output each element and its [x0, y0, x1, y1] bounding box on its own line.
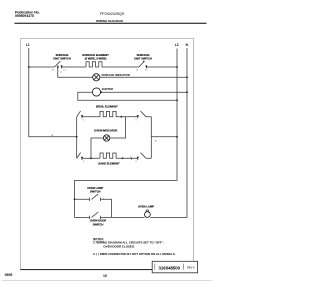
junction at L1 feed and oven left bus	[76, 136, 78, 138]
wire L2 vertical	[75, 49, 178, 181]
switch oven lamp switch	[90, 194, 101, 201]
svg-text:IGNITOR: IGNITOR	[102, 87, 113, 91]
wire broil row	[82, 116, 151, 118]
junction at switch tap and indicator drop	[57, 66, 59, 68]
svg-text:FFGW2425QS: FFGW2425QS	[100, 12, 125, 16]
switch broil right	[138, 111, 146, 118]
resistor broil element	[100, 111, 119, 116]
barcode bars	[155, 264, 184, 270]
junction at ignitor output	[100, 91, 102, 93]
notes block	[93, 237, 176, 256]
junction at L2 and ignitor return	[176, 99, 178, 101]
wire surface indicator row	[58, 67, 187, 77]
junction on bake row	[122, 157, 124, 159]
wire L1 vertical	[29, 48, 77, 137]
junction at surface switch right blade tip	[143, 61, 145, 63]
svg-text:OVEN INDICATOR: OVEN INDICATOR	[94, 128, 117, 132]
svg-text:WIRING DIAGRAM: WIRING DIAGRAM	[96, 19, 123, 23]
wire oven lamp block left bus	[74, 180, 76, 217]
svg-text:BAKE ELEMENT: BAKE ELEMENT	[98, 161, 120, 165]
switch oven door switch	[90, 212, 101, 219]
resistor surface element	[86, 62, 105, 67]
junction at bake row and indicator leg	[90, 157, 92, 159]
wire oven left bus	[76, 117, 78, 159]
svg-text:0905: 0905	[5, 273, 13, 277]
wire ignitor loop	[78, 92, 187, 100]
svg-text:SWITCH: SWITCH	[90, 190, 101, 194]
svg-text:UNIT SWITCH: UNIT SWITCH	[134, 56, 152, 60]
svg-text:(2 WIRE, 3 WIRE): (2 WIRE, 3 WIRE)	[85, 56, 107, 60]
wire oven door row	[75, 216, 145, 218]
svg-text:10: 10	[103, 274, 107, 278]
contact arrow surface switch right	[145, 66, 147, 68]
junction at L2 and surface row	[176, 66, 178, 68]
svg-text:2. ( ) WIRE CONNECTED BY DOT: 2. ( ) WIRE CONNECTED BY DOT OPTION ON A…	[93, 252, 176, 256]
contact arrow surface switch left	[60, 66, 62, 68]
junction at N and indicator row	[186, 76, 188, 78]
wire oven right bus	[151, 117, 177, 159]
junction on broil row	[120, 116, 122, 118]
svg-text:316048500: 316048500	[159, 265, 181, 270]
barcode box	[152, 261, 197, 273]
lamp oven lamp	[145, 212, 151, 218]
header rule	[15, 23, 207, 24]
page bottom scan line	[2, 279, 212, 282]
svg-text:REV A: REV A	[187, 265, 195, 269]
wire surface unit row	[29, 66, 177, 68]
lamp oven indicator	[103, 135, 109, 141]
svg-text:L1: L1	[26, 43, 30, 47]
wire bake row	[82, 157, 151, 160]
contact arrow broil switch left	[81, 115, 83, 117]
svg-text:OVEN LAMP: OVEN LAMP	[138, 204, 154, 208]
svg-text:L2: L2	[175, 43, 179, 47]
footer rule	[20, 269, 153, 270]
svg-text:OVEN LAMP: OVEN LAMP	[87, 186, 103, 190]
resistor bake element	[100, 153, 119, 158]
svg-text:5995094375: 5995094375	[15, 14, 34, 18]
junction at lamp block bus and switch row	[74, 198, 76, 200]
wire oven indicator branch	[91, 117, 126, 159]
junction at L2 and oven exit row	[176, 136, 178, 138]
contact arrow bake switch left	[81, 157, 83, 159]
junction at N and ignitor row	[186, 91, 188, 93]
svg-text:OVEN DOOR: OVEN DOOR	[90, 219, 106, 223]
wire N vertical	[150, 48, 187, 217]
wire oven lamp switch row	[75, 199, 112, 217]
svg-text:SWITCH: SWITCH	[93, 222, 104, 226]
svg-text:UNIT SWITCH: UNIT SWITCH	[53, 56, 71, 60]
switch bake left	[77, 153, 82, 161]
svg-text:OVEN DOOR CLOSED.: OVEN DOOR CLOSED.	[103, 245, 135, 249]
contact arrow broil switch right	[137, 115, 139, 117]
junction at L1 and surface row	[28, 66, 30, 68]
switch broil left	[77, 111, 82, 119]
switch bake right	[138, 153, 146, 160]
lamp ignitor	[92, 88, 100, 96]
diagram frame	[20, 39, 193, 270]
svg-text:SURFACE INDICATOR: SURFACE INDICATOR	[102, 73, 130, 77]
contact arrow bake switch right	[137, 157, 139, 159]
lamp surface indicator	[93, 74, 100, 81]
switch surface unit switch left	[55, 61, 62, 68]
switch surface unit switch right	[139, 61, 146, 68]
svg-text:BROIL ELEMENT: BROIL ELEMENT	[96, 104, 118, 108]
